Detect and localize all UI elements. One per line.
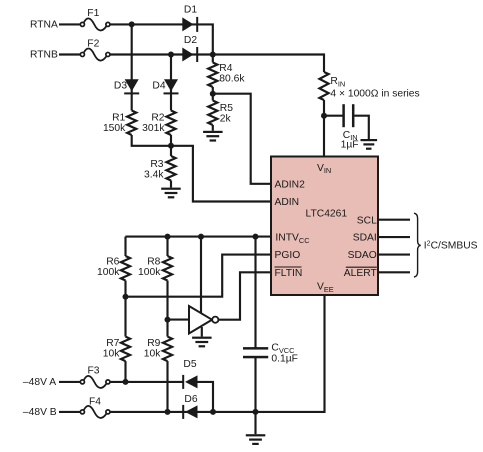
svg-text:R8: R8 — [147, 256, 160, 267]
svg-text:R5: R5 — [220, 103, 233, 114]
svg-text:1µF: 1µF — [341, 140, 359, 151]
svg-text:R2: R2 — [151, 113, 164, 124]
svg-text:LTC4261: LTC4261 — [306, 208, 348, 219]
svg-text:ADIN: ADIN — [275, 197, 300, 208]
svg-text:ALERT: ALERT — [344, 268, 378, 279]
svg-text:D3: D3 — [114, 81, 127, 92]
svg-text:F1: F1 — [87, 8, 99, 19]
svg-text:I2C/SMBUS: I2C/SMBUS — [424, 240, 478, 251]
svg-text:RTNA: RTNA — [30, 20, 58, 31]
svg-text:D5: D5 — [183, 359, 196, 370]
svg-text:301k: 301k — [142, 123, 165, 134]
svg-text:R9: R9 — [147, 338, 160, 349]
svg-text:ADIN2: ADIN2 — [275, 180, 306, 191]
svg-text:100k: 100k — [138, 267, 161, 278]
svg-text:10k: 10k — [144, 348, 161, 359]
svg-text:SDAO: SDAO — [348, 250, 377, 261]
svg-text:100k: 100k — [97, 267, 120, 278]
svg-text:D4: D4 — [152, 81, 165, 92]
svg-text:SCL: SCL — [357, 215, 377, 226]
svg-text:RTNB: RTNB — [30, 50, 58, 61]
svg-text:D2: D2 — [184, 35, 197, 46]
svg-text:F4: F4 — [89, 396, 101, 407]
svg-text:–48V A: –48V A — [23, 377, 56, 388]
svg-text:–48V B: –48V B — [23, 407, 57, 418]
svg-text:150k: 150k — [103, 123, 126, 134]
svg-text:FLTIN: FLTIN — [275, 268, 303, 279]
svg-text:0.1µF: 0.1µF — [271, 354, 298, 365]
svg-text:D6: D6 — [184, 394, 197, 405]
svg-text:R1: R1 — [112, 113, 125, 124]
svg-text:F3: F3 — [87, 366, 99, 377]
svg-text:R4: R4 — [219, 63, 232, 74]
svg-text:F2: F2 — [87, 38, 99, 49]
svg-text:SDAI: SDAI — [353, 233, 377, 244]
svg-text:2k: 2k — [220, 113, 232, 124]
svg-text:4 × 1000Ω in series: 4 × 1000Ω in series — [330, 89, 419, 100]
svg-text:R7: R7 — [106, 338, 119, 349]
svg-text:D1: D1 — [184, 5, 197, 16]
svg-text:R6: R6 — [106, 256, 119, 267]
svg-text:10k: 10k — [103, 348, 120, 359]
svg-text:PGIO: PGIO — [275, 250, 301, 261]
svg-text:R3: R3 — [150, 159, 163, 170]
svg-text:80.6k: 80.6k — [219, 74, 245, 85]
svg-text:3.4k: 3.4k — [144, 170, 164, 181]
